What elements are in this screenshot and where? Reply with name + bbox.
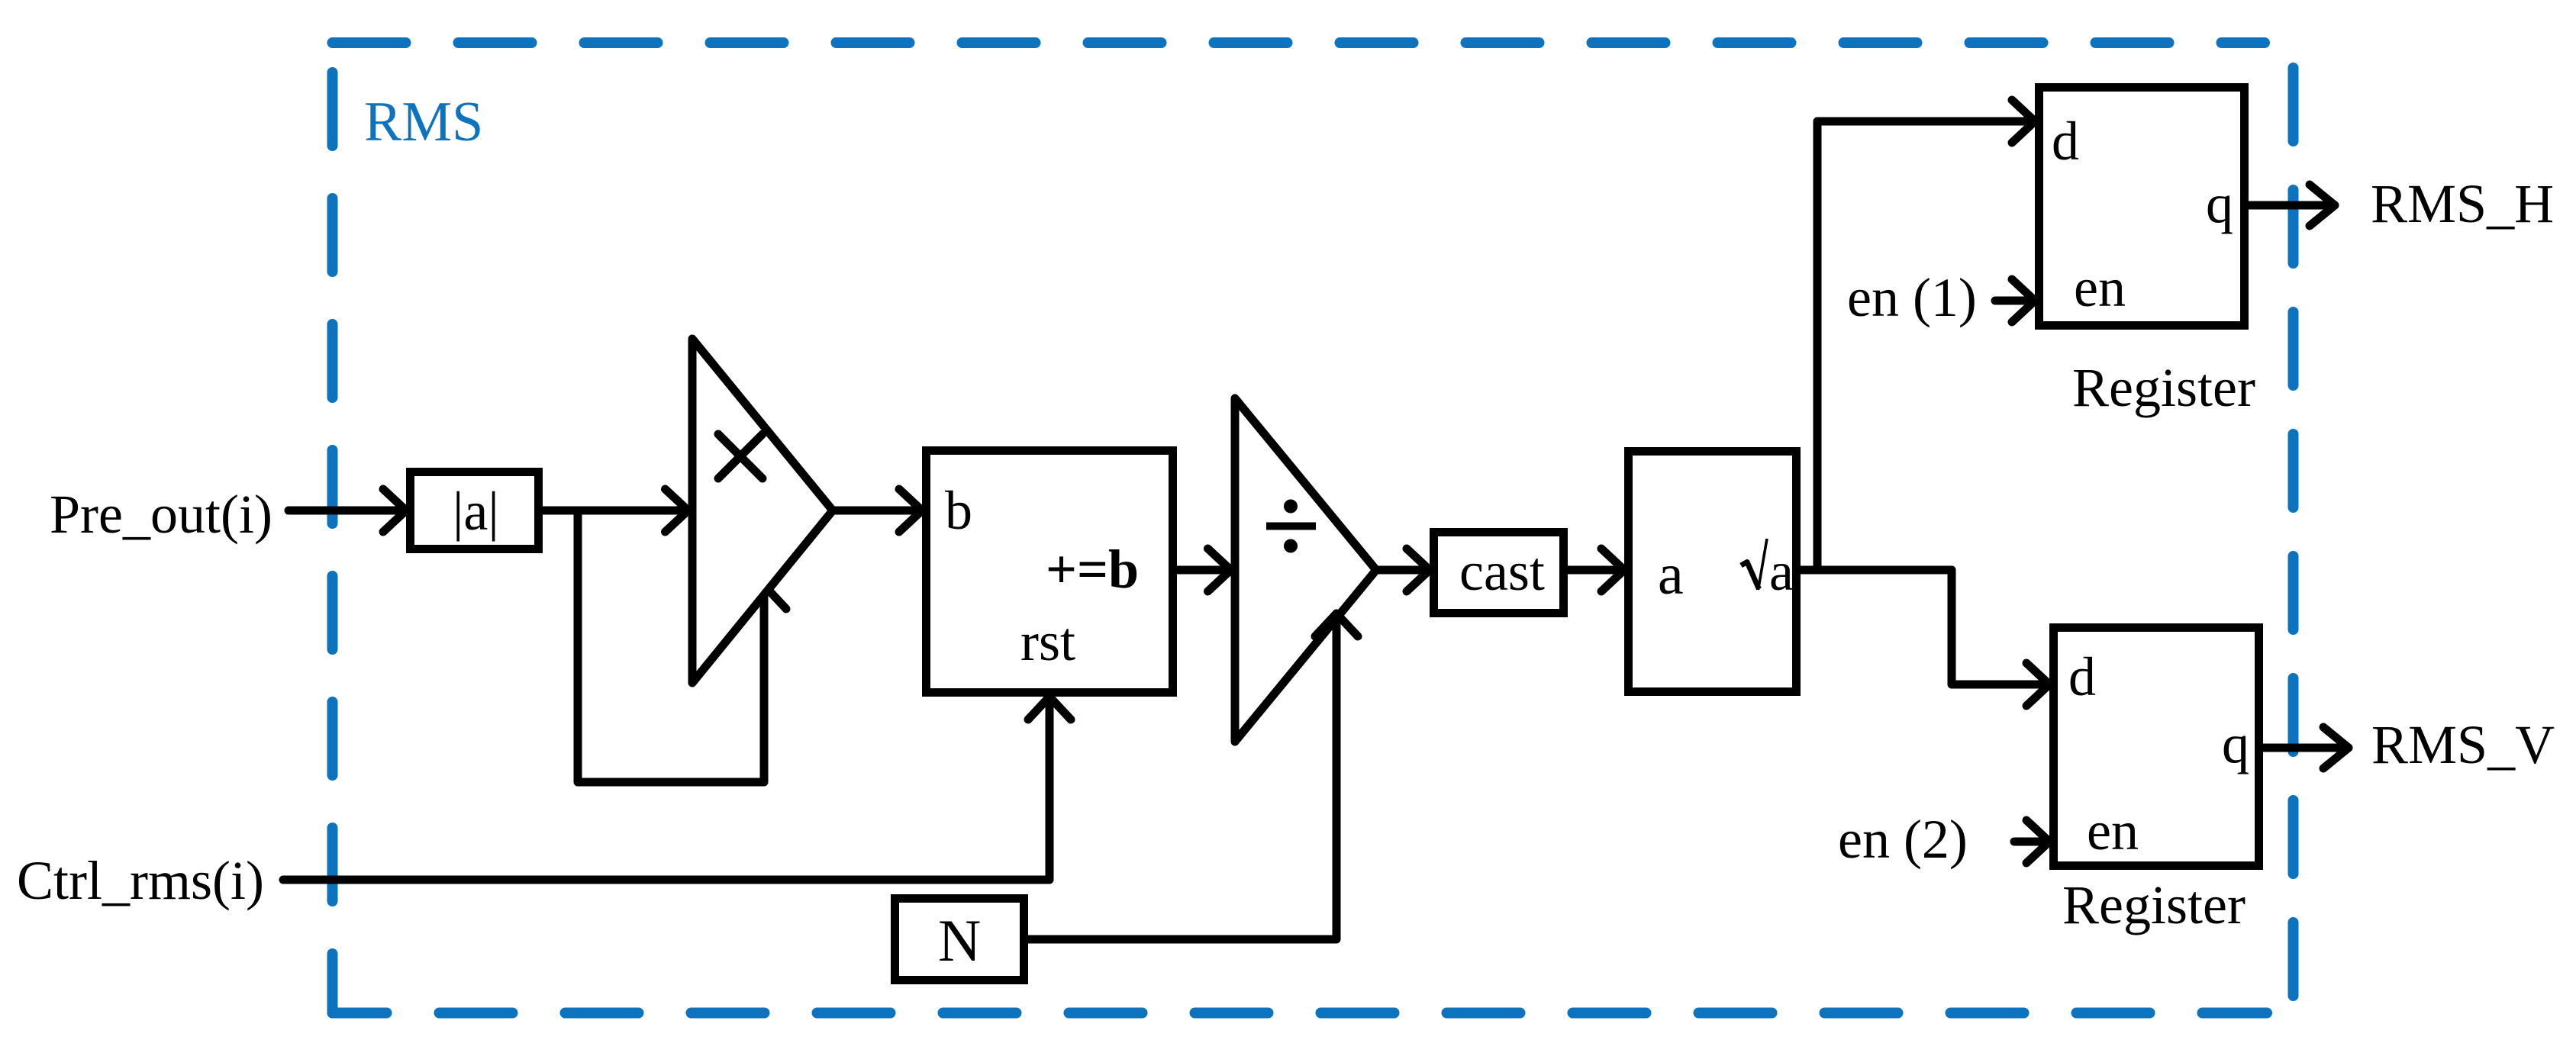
- top register block: [2039, 88, 2245, 326]
- constant block N: [895, 899, 1024, 980]
- svg-text:b: b: [945, 480, 972, 541]
- svg-text:rst: rst: [1020, 611, 1075, 672]
- wire cast to sqrt: [1568, 549, 1624, 591]
- sqrt block: [1629, 452, 1797, 692]
- wire Ctrl_rms(i) to accumulator rst: [283, 697, 1071, 880]
- wire sqrt output trunk: [1801, 566, 1952, 575]
- svg-text:d: d: [2068, 646, 2096, 707]
- wire Pre_out(i) to abs block: [289, 489, 406, 532]
- wire top register q output RMS_H: [2249, 185, 2335, 226]
- wire accumulator to divider: [1177, 549, 1231, 591]
- RMS block dashed boundary: [333, 43, 2294, 1013]
- wire step down to bottom register d: [1952, 570, 2049, 706]
- wire abs to multiplier: [543, 489, 688, 532]
- svg-text:+=b: +=b: [1046, 539, 1139, 600]
- svg-text:a: a: [1769, 541, 1794, 602]
- svg-text:Register: Register: [2062, 874, 2246, 935]
- svg-text:Pre_out(i): Pre_out(i): [50, 484, 272, 545]
- accumulator block: [927, 451, 1173, 693]
- svg-text:en (2): en (2): [1838, 809, 1968, 870]
- wire divider to cast: [1376, 549, 1430, 591]
- svg-text:N: N: [938, 907, 981, 974]
- svg-text:en: en: [2074, 257, 2126, 318]
- wire multiplier to accumulator: [833, 489, 922, 532]
- svg-text:a: a: [1658, 543, 1684, 607]
- svg-text:RMS: RMS: [364, 91, 483, 153]
- svg-text:q: q: [2222, 713, 2249, 774]
- svg-text:RMS_H: RMS_H: [2371, 173, 2554, 234]
- svg-text:d: d: [2052, 111, 2079, 172]
- svg-text:en (1): en (1): [1847, 267, 1977, 328]
- svg-text:cast: cast: [1459, 541, 1545, 602]
- wire branch up to top register d: [1817, 100, 2035, 570]
- svg-text:Register: Register: [2072, 357, 2255, 418]
- svg-text:q: q: [2206, 173, 2233, 234]
- svg-text:|a|: |a|: [453, 481, 499, 542]
- svg-text:en: en: [2087, 800, 2139, 861]
- wire bottom register q output RMS_V: [2263, 727, 2349, 768]
- cast block: [1434, 533, 1564, 613]
- svg-text:RMS_V: RMS_V: [2371, 714, 2555, 775]
- divider triangle: [1235, 398, 1376, 742]
- wire en (2) arrow: [2014, 820, 2049, 863]
- svg-text:Ctrl_rms(i): Ctrl_rms(i): [17, 850, 264, 911]
- wire N to divider second input: [1028, 613, 1358, 939]
- wire en (1) arrow: [1995, 279, 2035, 322]
- multiplier triangle: [692, 339, 833, 683]
- feedback wire abs output to multiplier second input: [578, 510, 786, 782]
- abs block |a|: [411, 472, 539, 549]
- bottom register block: [2054, 628, 2259, 866]
